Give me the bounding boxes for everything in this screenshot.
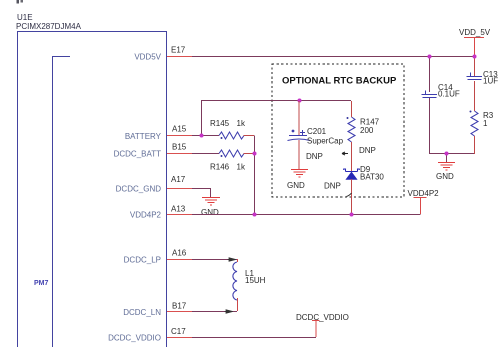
svg-text:R146: R146 — [210, 163, 230, 172]
svg-text:1: 1 — [483, 119, 488, 128]
wire DCDC_BATT row — [192, 153, 219, 155]
diode D9 BAT30 schottky — [344, 169, 360, 180]
dashed box OPTIONAL RTC BACKUP — [272, 64, 404, 197]
svg-text:200: 200 — [360, 126, 374, 135]
svg-text:DNP: DNP — [359, 146, 376, 155]
wire DCDC_LN row — [192, 311, 237, 313]
wire DCDC_GND to ground — [192, 188, 211, 198]
wire DCDC_VDDIO row — [192, 337, 316, 339]
wire DCDC_LP row — [192, 259, 237, 261]
junction dot at C14 tap — [428, 55, 432, 59]
R145 pin1 dot — [221, 137, 223, 139]
svg-text:DCDC_LN: DCDC_LN — [123, 308, 161, 317]
IC block U1E outline — [17, 31, 167, 347]
wire C14 bottom to gnd rail — [429, 98, 474, 154]
junction dot BATTERY tap — [200, 134, 204, 138]
pin stub A13 — [167, 214, 192, 216]
svg-text:VDD4P2: VDD4P2 — [130, 211, 162, 220]
svg-text:DNP: DNP — [306, 152, 323, 161]
wire BATTERY row — [192, 135, 219, 137]
wire right vertical bus to VDD4P2 rail — [254, 136, 256, 215]
svg-text:SuperCap: SuperCap — [307, 137, 344, 146]
svg-text:1k: 1k — [237, 163, 246, 172]
wire battery net into box — [201, 100, 351, 135]
arrow mark LN — [225, 310, 233, 313]
junction dot at VDD_5V tap — [473, 55, 477, 59]
power flag DCDC_VDDIO — [312, 320, 320, 322]
wire C13 to R3 — [474, 81, 476, 111]
wire C201 top lead — [298, 101, 300, 135]
svg-text:C17: C17 — [171, 327, 186, 336]
wire VDD5V rail E17 to VDD_5V — [192, 56, 474, 58]
R3 pin1 dot — [470, 111, 472, 113]
svg-text:U1E: U1E — [17, 13, 33, 22]
R147 pin1 dot — [347, 117, 349, 119]
svg-text:GND: GND — [287, 181, 305, 190]
pin stub B15 — [167, 153, 192, 155]
svg-text:PM7: PM7 — [34, 280, 49, 287]
svg-text:DCDC_VDDIO: DCDC_VDDIO — [296, 313, 349, 322]
junction dot at gnd rail — [445, 152, 449, 156]
capacitor C13 — [467, 77, 483, 80]
junction dot D9 to rail — [350, 213, 354, 217]
DNP pointer tick — [342, 152, 348, 155]
power flag VDD_5V — [464, 38, 484, 57]
svg-text:DNP: DNP — [324, 182, 341, 191]
svg-text:A17: A17 — [171, 175, 186, 184]
svg-text:DCDC_LP: DCDC_LP — [124, 256, 161, 265]
pin stub A17 — [167, 188, 192, 190]
junction dot R146 bus — [253, 152, 257, 156]
C13 polarity tick — [470, 73, 472, 77]
wire C201 bottom to gnd — [298, 140, 300, 170]
svg-text:BATTERY: BATTERY — [125, 132, 162, 141]
C201 plus sign — [292, 130, 295, 133]
wire R3 bottom — [474, 136, 476, 154]
junction dot C201 tap — [298, 99, 302, 103]
wire DCDC_VDDIO riser — [315, 321, 317, 337]
resistor R3 — [471, 111, 478, 136]
svg-text:A16: A16 — [172, 249, 187, 258]
wire L1 top lead — [237, 259, 239, 262]
pin stub C17 — [167, 337, 192, 339]
svg-text:A13: A13 — [171, 205, 186, 214]
stray text fragment top-left — [17, 0, 20, 4]
svg-text:0.1UF: 0.1UF — [438, 90, 460, 99]
svg-text:E17: E17 — [171, 46, 186, 55]
capacitor C14 — [422, 95, 438, 98]
wire VDD4P2 rail — [192, 214, 421, 216]
wire L1 bottom lead — [237, 298, 239, 311]
resistor R146 — [219, 150, 244, 157]
svg-text:C201: C201 — [307, 127, 327, 136]
wire R146 right lead — [244, 153, 255, 155]
C14 polarity tick — [425, 91, 427, 95]
svg-text:B17: B17 — [172, 302, 187, 311]
svg-text:DCDC_BATT: DCDC_BATT — [114, 150, 162, 159]
wire C13 branch vertical — [474, 57, 476, 76]
ground symbol right section — [438, 163, 455, 171]
svg-text:GND: GND — [201, 208, 219, 217]
wire R147 bottom to D9 — [351, 142, 353, 171]
svg-text:DCDC_GND: DCDC_GND — [116, 185, 162, 194]
svg-text:VDD_5V: VDD_5V — [459, 28, 491, 37]
pin stub A15 — [167, 135, 192, 137]
wire C14 branch vertical — [429, 57, 431, 92]
pin stub B17 — [167, 311, 192, 313]
svg-text:BAT30: BAT30 — [360, 173, 384, 182]
ground symbol C201 — [291, 170, 308, 178]
svg-text:A15: A15 — [172, 125, 187, 134]
wire D9 anode down to VDD4P2 rail — [351, 179, 353, 214]
IC block inner section line — [52, 56, 70, 347]
junction dot bus to rail — [253, 213, 257, 217]
svg-text:VDD5V: VDD5V — [134, 53, 161, 62]
wire R145 right lead — [244, 135, 255, 137]
svg-text:DCDC_VDDIO: DCDC_VDDIO — [108, 334, 161, 343]
pin stub A16 — [167, 259, 192, 261]
ground symbol DCDC_GND — [202, 198, 220, 206]
svg-text:B15: B15 — [172, 143, 187, 152]
svg-text:R145: R145 — [210, 119, 230, 128]
svg-text:PCIMX287DJM4A: PCIMX287DJM4A — [16, 22, 82, 31]
svg-text:OPTIONAL RTC BACKUP: OPTIONAL RTC BACKUP — [282, 76, 397, 87]
R146 pin1 dot — [221, 155, 223, 157]
svg-text:VDD4P2: VDD4P2 — [408, 189, 440, 198]
wire gnd drop right section — [446, 154, 448, 163]
power flag VDD4P2 — [414, 198, 427, 215]
svg-text:1UF: 1UF — [483, 77, 498, 86]
DNP squiggle on wire — [347, 193, 352, 197]
arrow mark LP — [228, 258, 236, 261]
svg-text:GND: GND — [436, 172, 454, 181]
pin stub E17 — [167, 56, 192, 58]
C201 lead tick — [300, 130, 305, 135]
capacitor C201 SuperCap — [288, 136, 311, 141]
wire R147 top lead — [351, 101, 353, 117]
svg-text:1k: 1k — [237, 119, 246, 128]
svg-text:15UH: 15UH — [245, 276, 266, 285]
